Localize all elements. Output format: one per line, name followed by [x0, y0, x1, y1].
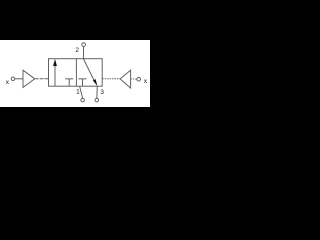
port 1 circle: [81, 98, 85, 102]
dashed pilot wire valve body to right triangle: [102, 78, 120, 80]
right pilot amplifier triangle: [120, 70, 131, 88]
port 3 wire (slanted): [96, 86, 99, 98]
svg-text:1: 1: [76, 89, 80, 96]
port 2 wire: [83, 47, 85, 59]
right chamber blocked port T: [78, 78, 86, 80]
white schematic strip: [0, 40, 150, 107]
svg-text:2: 2: [75, 47, 79, 54]
left chamber blocked port T: [65, 78, 73, 80]
dashed wire right triangle to circle: [131, 78, 137, 80]
dashed pilot wire left triangle to valve body: [35, 78, 49, 80]
svg-text:3: 3: [100, 89, 104, 96]
left pilot amplifier triangle: [23, 70, 35, 87]
right pilot port circle: [137, 77, 141, 81]
left chamber flow arrow (up): [54, 65, 56, 86]
svg-text:x: x: [144, 78, 148, 85]
left chamber flow arrow head: [53, 59, 57, 66]
port 2 circle: [82, 43, 86, 47]
port 1 wire (slanted): [80, 86, 83, 98]
left pilot port circle: [11, 77, 15, 81]
port 3 circle: [95, 98, 99, 102]
valve body box: [49, 59, 103, 86]
diagonal arrow head: [93, 79, 98, 86]
svg-text:x: x: [6, 79, 10, 86]
chamber divider: [75, 59, 77, 86]
right chamber diagonal flow arrow (2 to 3): [83, 59, 94, 82]
wire circle to left amplifier: [15, 78, 23, 80]
